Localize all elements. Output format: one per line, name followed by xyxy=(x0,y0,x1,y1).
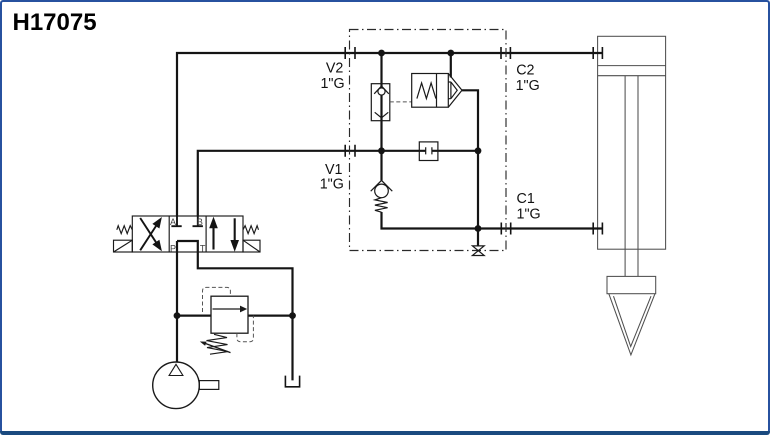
svg-text:C2: C2 xyxy=(516,63,534,79)
svg-text:1"G: 1"G xyxy=(517,207,541,223)
svg-text:1"G: 1"G xyxy=(320,76,344,92)
svg-text:A: A xyxy=(170,217,176,227)
svg-text:1"G: 1"G xyxy=(516,78,540,94)
svg-text:V2: V2 xyxy=(326,60,344,76)
svg-text:1"G: 1"G xyxy=(320,176,344,192)
svg-text:C1: C1 xyxy=(517,191,535,207)
svg-text:B: B xyxy=(197,217,203,227)
svg-text:T: T xyxy=(200,243,206,253)
svg-text:P: P xyxy=(170,243,176,253)
